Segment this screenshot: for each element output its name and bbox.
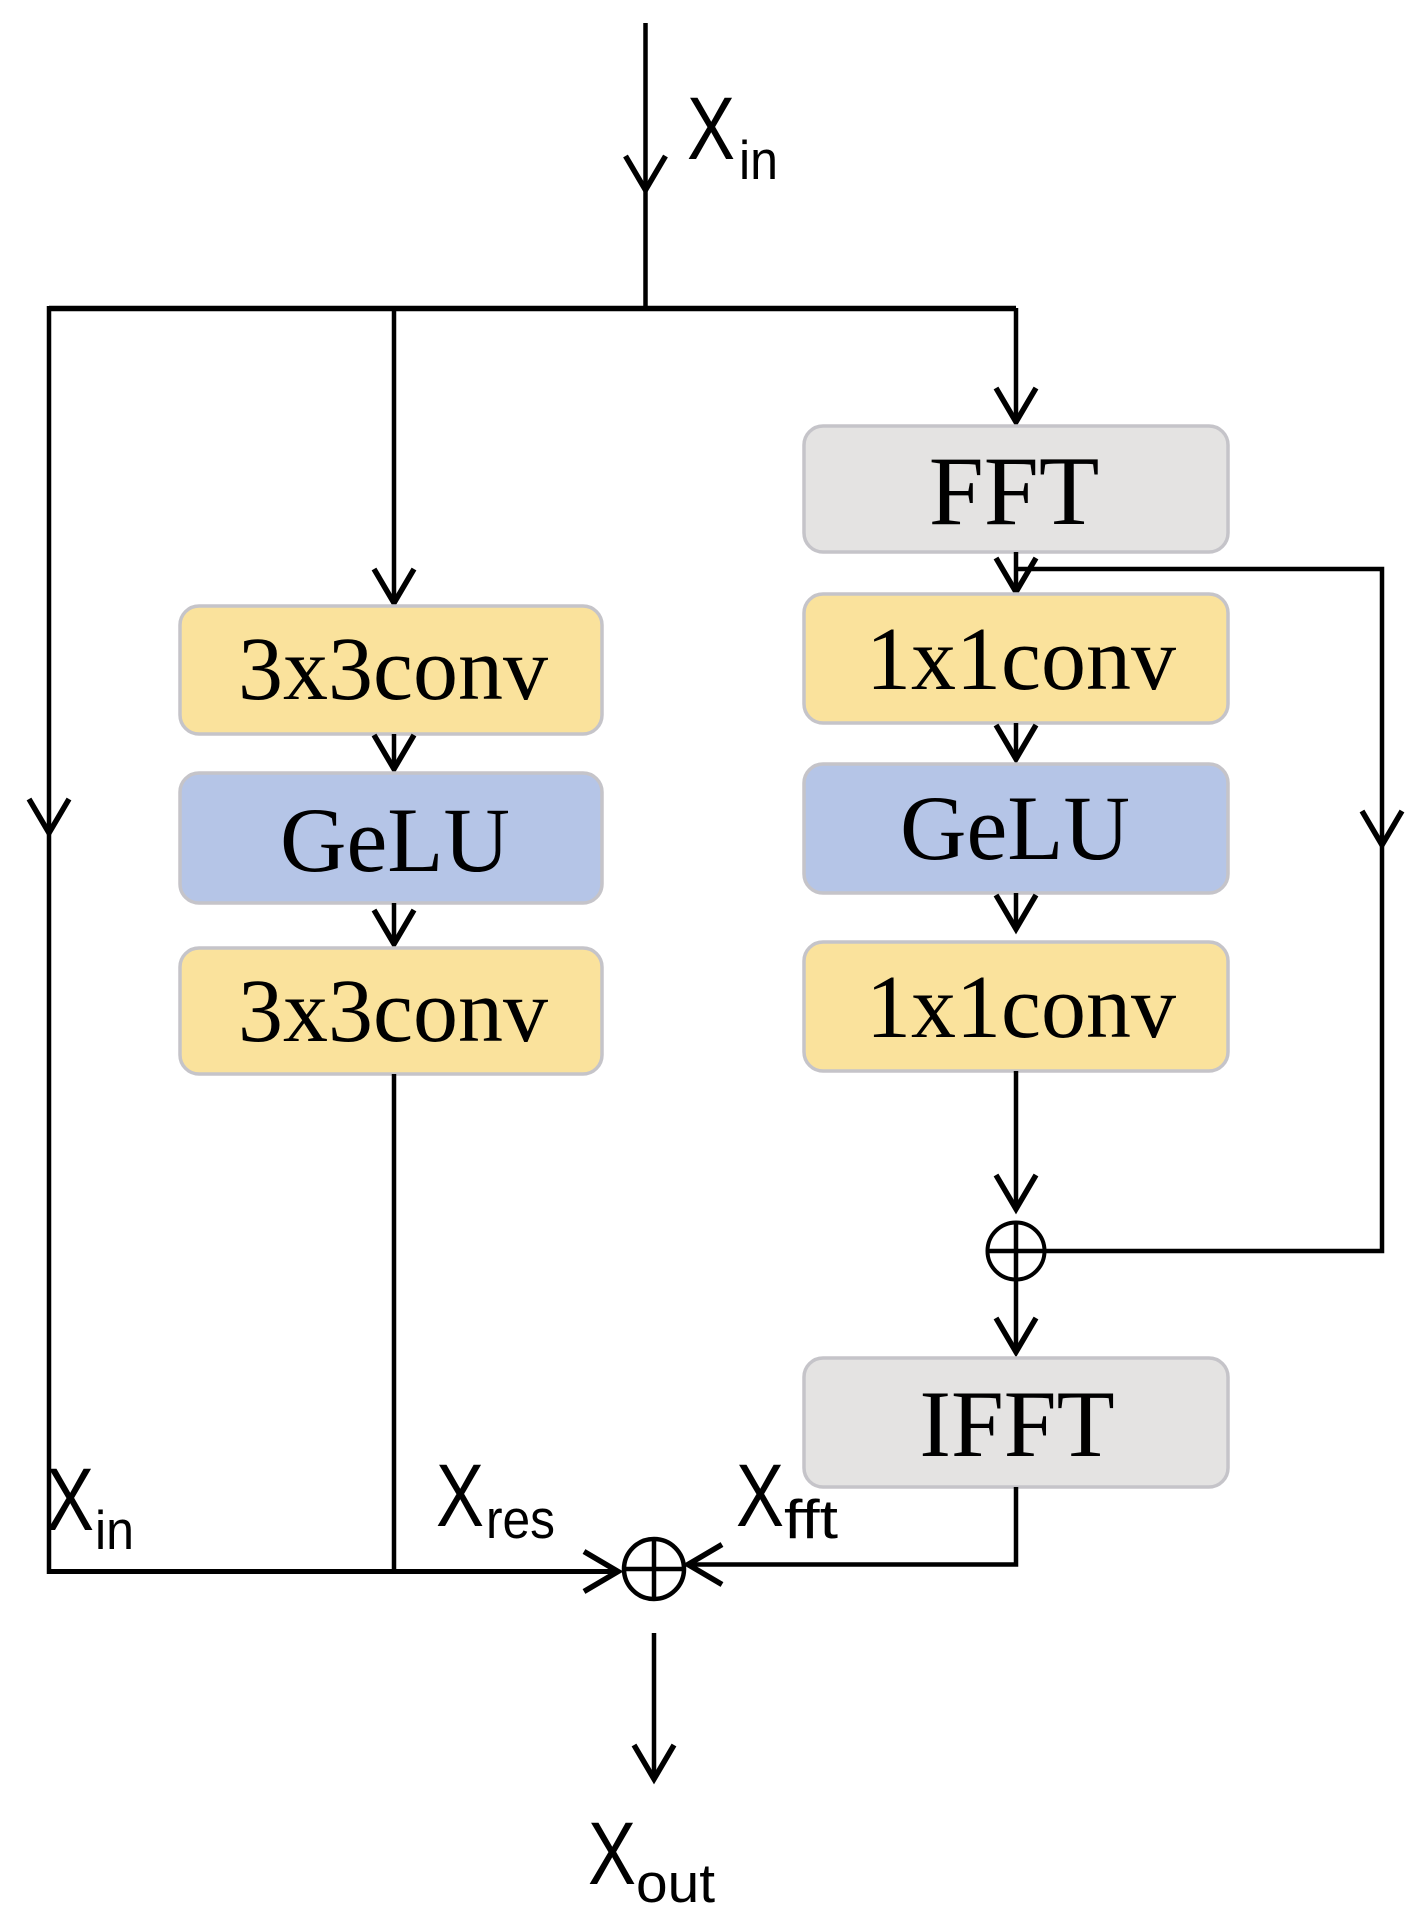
wire 3x3conv to GeLU	[392, 734, 397, 766]
wire GeLU to 3x3conv	[392, 903, 397, 941]
wire right branch down to FFT	[1014, 308, 1019, 420]
arrowhead left skip mid	[29, 799, 69, 833]
svg-text:in: in	[739, 129, 778, 191]
arrowhead into FFT	[996, 388, 1036, 422]
arrowhead output	[634, 1745, 674, 1779]
box 3x3conv (bottom)	[180, 948, 602, 1074]
wire 1x1conv to GeLU	[1014, 723, 1019, 756]
arrowhead input	[626, 156, 666, 190]
arrowhead into 3x3conv	[374, 569, 414, 603]
wire left skip vertical	[47, 306, 52, 1574]
arrowhead into adder top	[996, 1175, 1036, 1209]
wire bottom rail to adder	[47, 1569, 615, 1574]
svg-text:FFT: FFT	[929, 437, 1100, 546]
arrowhead into bottom adder from right	[688, 1545, 722, 1585]
svg-text:X: X	[736, 1445, 784, 1545]
box FFT	[804, 426, 1228, 552]
arrowhead into GeLU left	[374, 735, 414, 769]
adder circle (output)	[624, 1539, 684, 1599]
svg-text:GeLU: GeLU	[900, 777, 1130, 879]
arrowhead into 3x3conv bottom	[374, 910, 414, 944]
arrowhead into 1x1conv bottom	[996, 895, 1036, 929]
svg-text:GeLU: GeLU	[280, 789, 510, 891]
arrowhead into bottom adder from left	[584, 1552, 618, 1592]
svg-text:IFFT: IFFT	[919, 1371, 1114, 1477]
wire Xres down from 3x3conv to bottom rail	[392, 1074, 397, 1574]
box GeLU (right)	[804, 764, 1228, 893]
svg-text:X: X	[46, 1449, 94, 1549]
svg-text:1x1conv: 1x1conv	[866, 610, 1176, 709]
wire GeLU to 1x1conv	[1014, 893, 1019, 926]
svg-text:out: out	[636, 1852, 715, 1914]
wire adder to IFFT	[1014, 1279, 1019, 1349]
box 1x1conv (top)	[804, 594, 1228, 723]
svg-text:1x1conv: 1x1conv	[866, 958, 1176, 1057]
svg-text:fft: fft	[784, 1488, 838, 1550]
adder circle (frequency)	[988, 1223, 1045, 1280]
wire output arrow	[652, 1633, 657, 1776]
wire FFT to 1x1conv	[1014, 552, 1019, 589]
arrowhead into GeLU right	[996, 725, 1036, 759]
box 1x1conv (bottom)	[804, 942, 1228, 1071]
box IFFT	[804, 1358, 1228, 1487]
svg-text:in: in	[95, 1499, 134, 1561]
arrowhead into 1x1conv	[996, 558, 1036, 592]
wire input vertical	[643, 23, 648, 308]
arrowhead on right skip mid	[1362, 811, 1402, 845]
svg-text:X: X	[687, 78, 735, 178]
svg-text:X: X	[436, 1445, 484, 1545]
svg-text:res: res	[486, 1488, 555, 1550]
wire frequency skip: right then down then into adder	[1016, 569, 1382, 1251]
svg-text:3x3conv: 3x3conv	[238, 962, 548, 1061]
wire middle branch down to 3x3conv	[392, 308, 397, 600]
wire 1x1conv down to adder	[1014, 1071, 1019, 1206]
wire IFFT down and left to bottom adder	[691, 1487, 1016, 1565]
box GeLU (left)	[180, 773, 602, 903]
svg-text:3x3conv: 3x3conv	[238, 620, 548, 719]
box 3x3conv (top)	[180, 606, 602, 734]
svg-text:X: X	[588, 1803, 636, 1903]
arrowhead into IFFT	[996, 1318, 1036, 1352]
wire horizontal branch	[49, 306, 1016, 312]
